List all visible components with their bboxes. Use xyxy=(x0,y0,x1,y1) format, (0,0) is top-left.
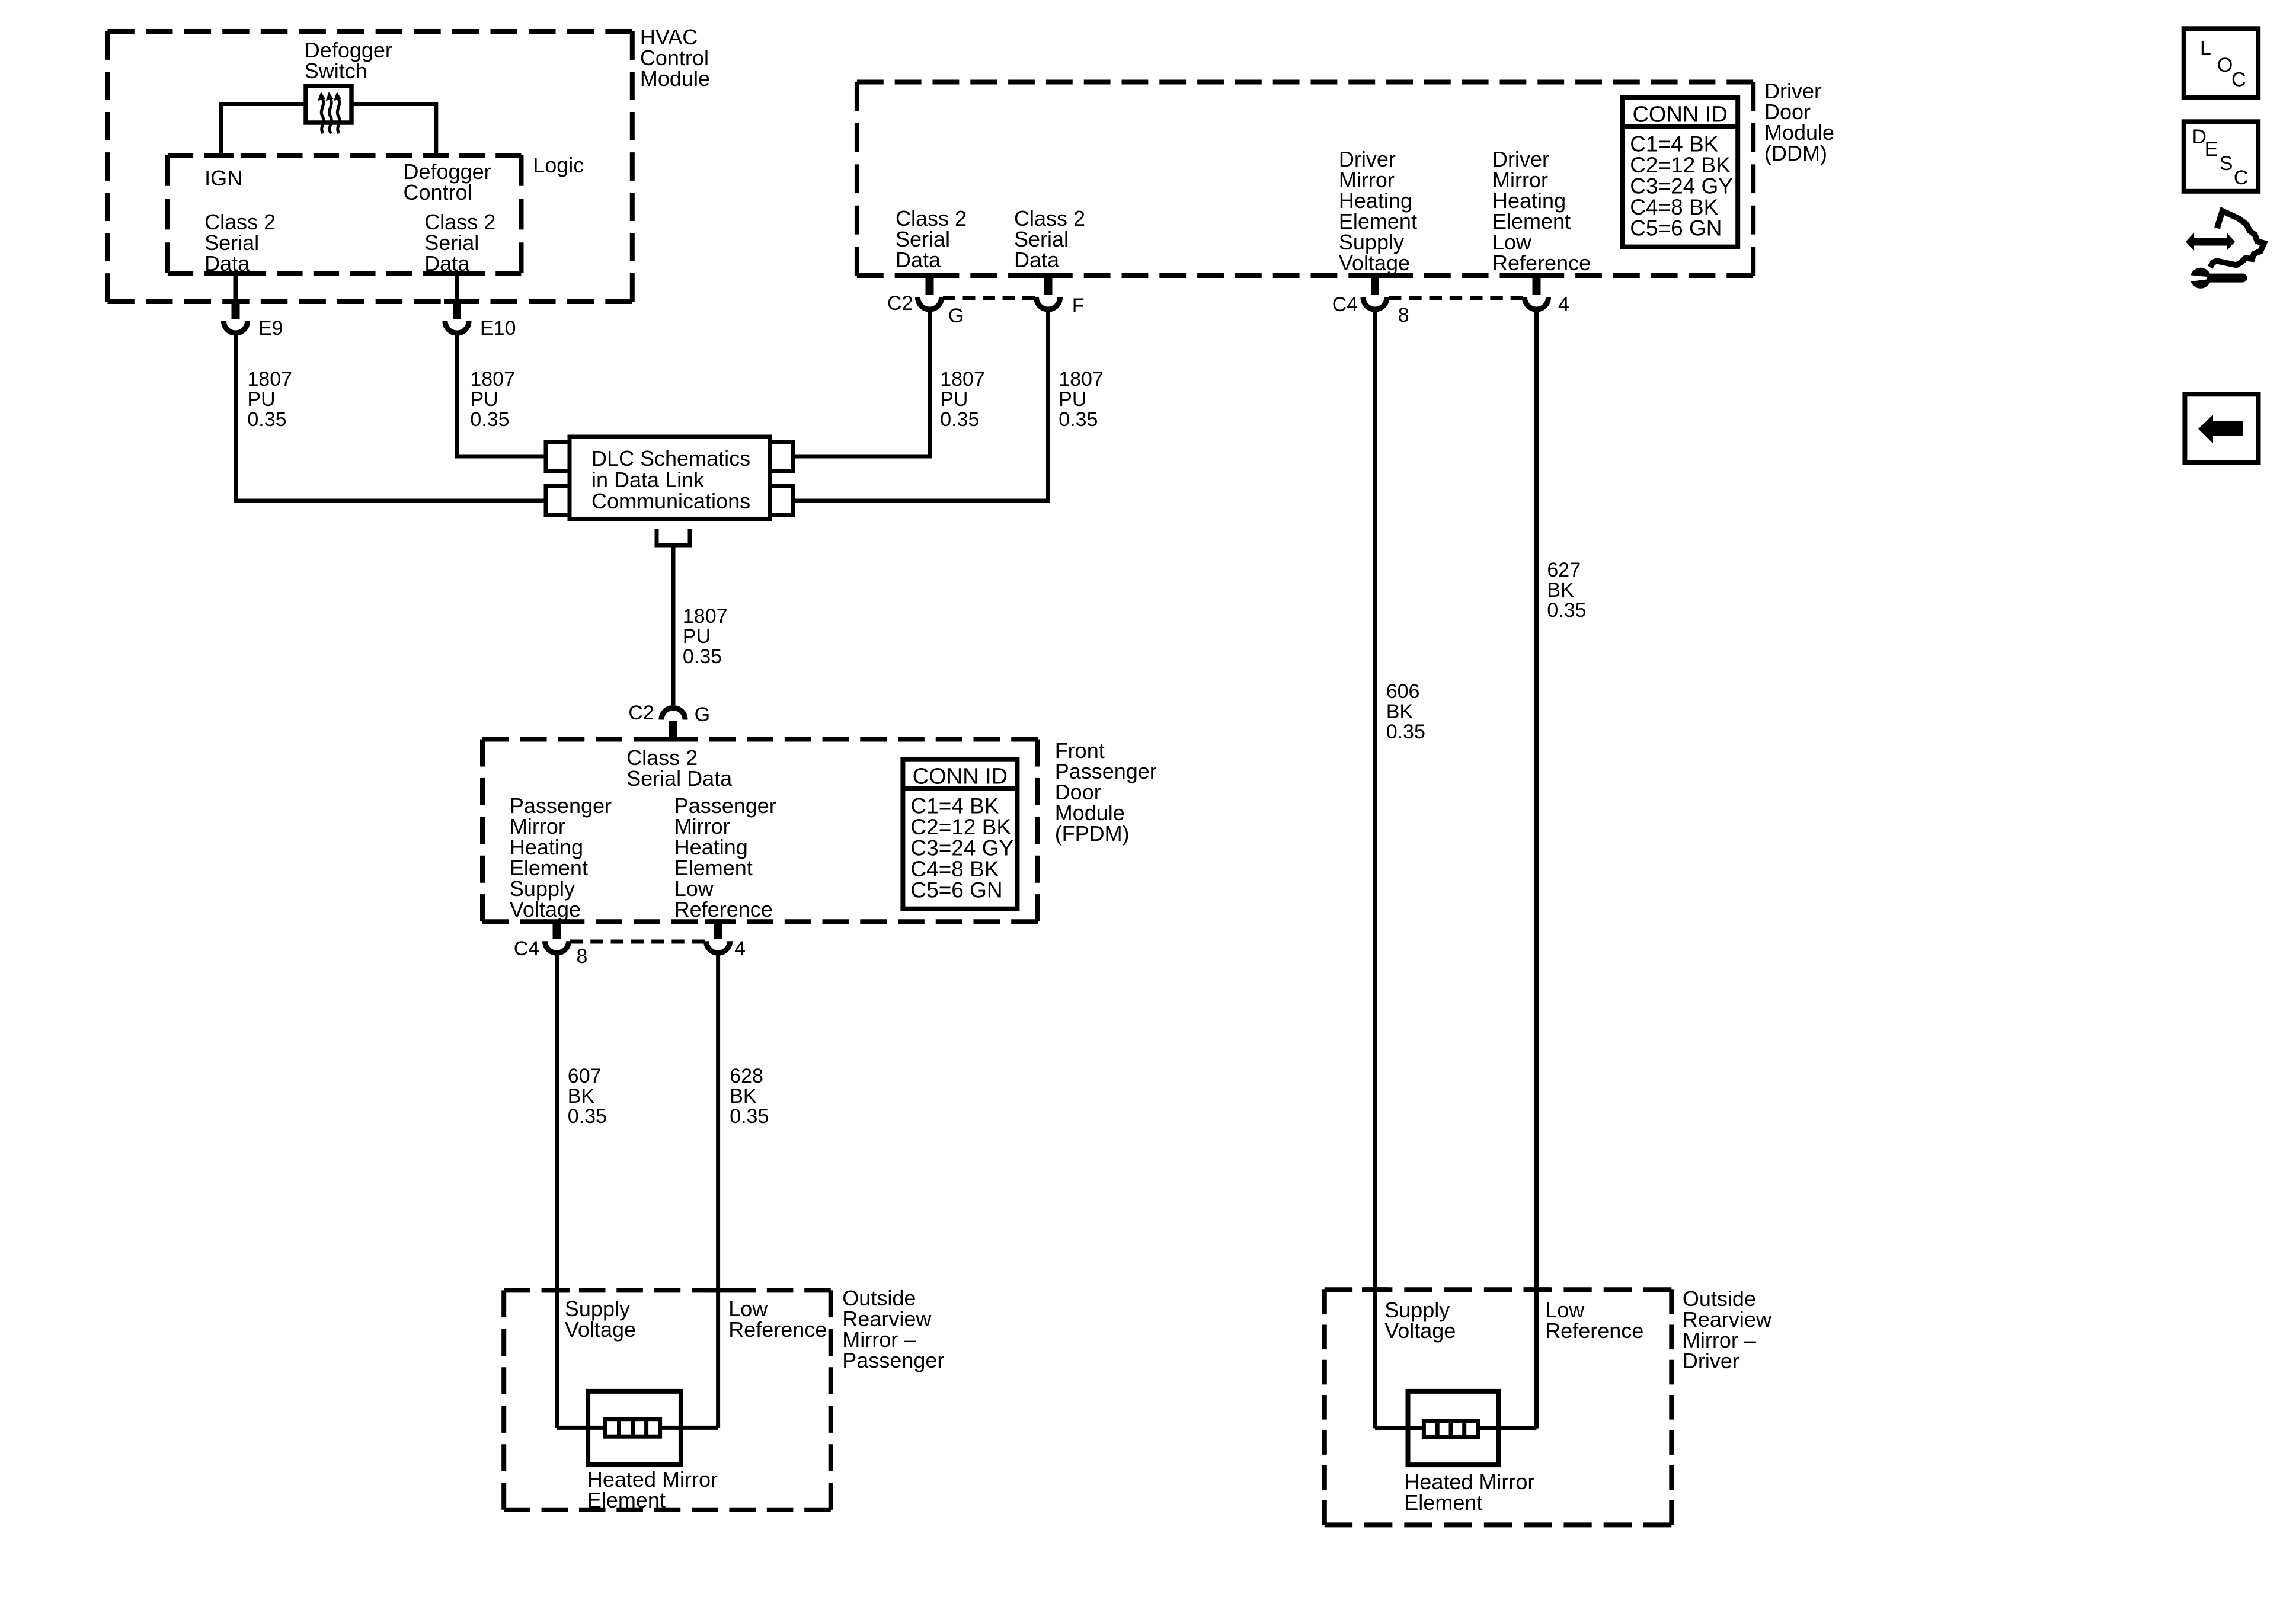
svg-text:Reference: Reference xyxy=(674,897,773,921)
svg-text:Module: Module xyxy=(640,66,710,91)
svg-text:PU: PU xyxy=(1059,388,1086,411)
svg-text:8: 8 xyxy=(1398,304,1409,327)
svg-text:Voltage: Voltage xyxy=(510,897,581,921)
svg-text:S: S xyxy=(2220,152,2233,175)
svg-text:E9: E9 xyxy=(258,317,283,340)
svg-text:Communications: Communications xyxy=(591,489,750,513)
svg-text:O: O xyxy=(2217,54,2233,76)
svg-text:606: 606 xyxy=(1386,680,1420,703)
svg-text:Passenger: Passenger xyxy=(842,1348,944,1372)
svg-text:1807: 1807 xyxy=(683,605,728,628)
svg-text:Driver: Driver xyxy=(1683,1349,1739,1373)
svg-text:C: C xyxy=(2234,167,2249,189)
svg-text:0.35: 0.35 xyxy=(1547,599,1586,622)
svg-text:PU: PU xyxy=(683,625,711,648)
svg-text:0.35: 0.35 xyxy=(470,408,509,431)
svg-text:Serial Data: Serial Data xyxy=(626,766,733,791)
svg-text:4: 4 xyxy=(734,937,746,960)
svg-text:607: 607 xyxy=(568,1065,602,1087)
svg-text:1807: 1807 xyxy=(247,368,292,391)
svg-text:0.35: 0.35 xyxy=(1059,408,1098,431)
svg-text:4: 4 xyxy=(1558,293,1569,316)
svg-text:8: 8 xyxy=(577,945,588,968)
svg-text:0.35: 0.35 xyxy=(247,408,286,431)
svg-text:C4: C4 xyxy=(1332,293,1358,316)
svg-text:Reference: Reference xyxy=(1545,1318,1643,1343)
svg-text:CONN ID: CONN ID xyxy=(1632,102,1727,127)
svg-text:627: 627 xyxy=(1547,559,1581,581)
svg-text:1807: 1807 xyxy=(470,368,515,391)
svg-text:PU: PU xyxy=(940,388,968,411)
svg-text:C5=6 GN: C5=6 GN xyxy=(1630,216,1722,241)
svg-text:Element: Element xyxy=(1404,1490,1482,1515)
svg-text:Voltage: Voltage xyxy=(565,1317,636,1342)
svg-text:Data: Data xyxy=(1014,248,1060,272)
svg-text:PU: PU xyxy=(247,388,275,411)
svg-text:E10: E10 xyxy=(480,317,516,340)
svg-text:BK: BK xyxy=(730,1085,757,1108)
svg-text:1807: 1807 xyxy=(1059,368,1104,391)
svg-text:E: E xyxy=(2205,138,2218,161)
svg-text:0.35: 0.35 xyxy=(1386,721,1425,743)
svg-text:0.35: 0.35 xyxy=(730,1105,769,1128)
svg-text:Data: Data xyxy=(896,248,941,272)
svg-text:DLC Schematics: DLC Schematics xyxy=(591,446,750,471)
svg-text:G: G xyxy=(948,305,964,327)
svg-text:C4: C4 xyxy=(514,937,539,960)
svg-text:IGN: IGN xyxy=(204,166,242,190)
svg-text:C2: C2 xyxy=(628,702,654,724)
svg-text:Voltage: Voltage xyxy=(1384,1318,1456,1343)
svg-text:Control: Control xyxy=(404,180,472,204)
svg-text:1807: 1807 xyxy=(940,368,985,391)
svg-text:CONN ID: CONN ID xyxy=(913,764,1008,789)
svg-text:0.35: 0.35 xyxy=(568,1105,607,1128)
svg-text:C: C xyxy=(2231,68,2246,91)
svg-text:(DDM): (DDM) xyxy=(1764,141,1827,165)
svg-text:PU: PU xyxy=(470,388,498,411)
svg-text:Reference: Reference xyxy=(1492,251,1591,275)
svg-text:C5=6 GN: C5=6 GN xyxy=(910,878,1002,902)
svg-text:L: L xyxy=(2200,37,2211,59)
svg-text:Reference: Reference xyxy=(728,1317,827,1342)
svg-text:Switch: Switch xyxy=(305,59,367,83)
svg-text:Logic: Logic xyxy=(533,153,584,177)
svg-text:Element: Element xyxy=(587,1488,666,1512)
svg-text:G: G xyxy=(695,703,710,726)
svg-text:in Data Link: in Data Link xyxy=(591,468,705,492)
svg-text:(FPDM): (FPDM) xyxy=(1055,821,1130,846)
svg-text:BK: BK xyxy=(1547,579,1574,601)
svg-text:0.35: 0.35 xyxy=(683,645,722,668)
svg-text:628: 628 xyxy=(730,1065,763,1087)
svg-text:Voltage: Voltage xyxy=(1339,251,1410,275)
svg-text:C2: C2 xyxy=(887,292,913,315)
svg-text:BK: BK xyxy=(1386,700,1414,723)
svg-text:0.35: 0.35 xyxy=(940,408,979,431)
svg-text:BK: BK xyxy=(568,1085,595,1108)
svg-text:F: F xyxy=(1072,295,1085,317)
